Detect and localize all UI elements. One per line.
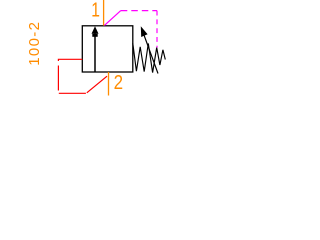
pilot line diagonal (solid) xyxy=(104,11,120,26)
svg-text:100-2: 100-2 xyxy=(26,21,43,66)
adjustment arrow head xyxy=(141,26,148,37)
flow path arrow head xyxy=(92,26,99,34)
drain line: bottom horizontal xyxy=(59,92,86,94)
spring xyxy=(133,43,166,72)
port 1 line xyxy=(103,0,105,26)
drain line: vertical xyxy=(57,66,59,91)
drain line: horizontal from box xyxy=(58,59,82,61)
valve body envelope xyxy=(82,26,133,72)
svg-text:2: 2 xyxy=(114,71,123,94)
port 2 line xyxy=(108,72,110,96)
pilot line horizontal (dashed) xyxy=(121,10,157,12)
adjustment arrow shaft xyxy=(144,35,158,74)
flow path arrow shaft xyxy=(94,33,96,72)
flow path arrow head collar xyxy=(92,34,97,37)
drain line: diagonal to port 2 xyxy=(87,76,107,93)
pilot line vertical (dashed) xyxy=(156,11,158,48)
svg-text:1: 1 xyxy=(91,0,100,21)
